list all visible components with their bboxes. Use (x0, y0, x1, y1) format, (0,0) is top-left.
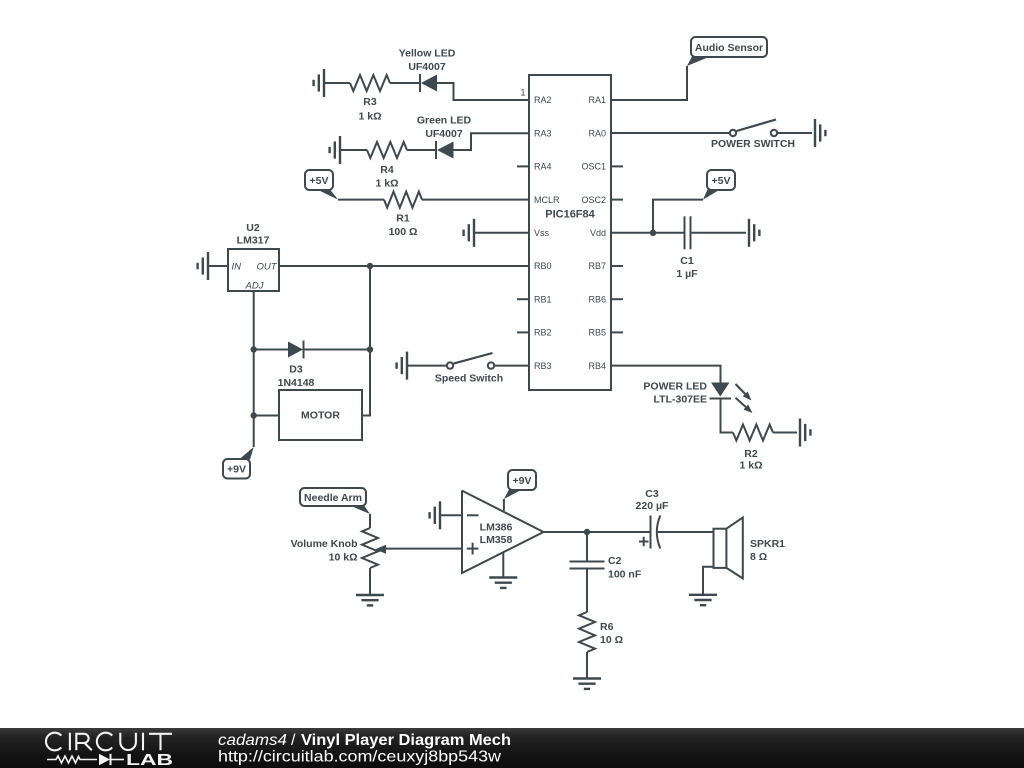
wire down to +9V flag (253, 416, 255, 448)
CircuitLab logo (46, 733, 173, 768)
ground (below speaker) (689, 595, 717, 605)
svg-text:Volume Knob: Volume Knob (291, 538, 358, 550)
wire motor left (254, 415, 279, 417)
label LM386 LM358 (480, 522, 513, 547)
switch SW1 POWER SWITCH (730, 120, 777, 137)
wire switch to RB3 (494, 365, 529, 367)
label Volume Knob 10k (291, 538, 358, 564)
wire Vdd to C1 (611, 232, 684, 234)
svg-text:LM317: LM317 (237, 235, 270, 247)
label R4 1 kOhm (375, 164, 398, 190)
footer url text (218, 748, 501, 765)
net flag +5V (Vdd) (703, 170, 735, 200)
wire junction up to +5V (653, 200, 703, 233)
svg-text:/: / (291, 732, 296, 749)
wire R3 to D1 (390, 82, 420, 84)
net flag Audio Sensor (687, 37, 767, 66)
svg-text:RB1: RB1 (534, 294, 552, 304)
node RB0 junction (367, 263, 373, 269)
wire down to motor right (362, 350, 370, 416)
wire +5V to R1 (338, 199, 384, 201)
ground (below op-amp) (489, 578, 517, 588)
label R3 1 kOhm (358, 96, 381, 123)
wire R1 to MCLR (422, 199, 529, 201)
ground (right of C1) (749, 219, 759, 247)
wire C2 to R6 (586, 569, 588, 613)
svg-text:SPKR1: SPKR1 (750, 538, 785, 550)
wire ground to minus input (440, 514, 462, 516)
svg-text:RA0: RA0 (588, 128, 606, 138)
label U2 LM317 (237, 222, 270, 247)
svg-text:RB0: RB0 (534, 261, 552, 271)
svg-text:+9V: +9V (513, 475, 532, 487)
wire ground to R3 (324, 82, 350, 84)
LED emission arrows (736, 384, 753, 413)
svg-text:1 kΩ: 1 kΩ (739, 460, 762, 472)
svg-text:POWER SWITCH: POWER SWITCH (711, 138, 795, 150)
wire R4 to D2 (407, 149, 436, 151)
svg-text:1 µF: 1 µF (676, 268, 698, 280)
svg-text:Green LED: Green LED (417, 115, 472, 127)
svg-text:RA2: RA2 (534, 95, 552, 105)
svg-text:R6: R6 (600, 621, 614, 633)
svg-text:C1: C1 (680, 255, 694, 267)
label Green LED UF4007 (417, 115, 472, 141)
label C3 220uF (636, 488, 669, 512)
svg-text:C2: C2 (608, 555, 622, 567)
wire D2 to RA3 (454, 133, 530, 150)
svg-text:OSC1: OSC1 (581, 162, 606, 172)
diode D2 green LED (436, 141, 454, 159)
svg-text:100 nF: 100 nF (608, 569, 642, 581)
op-amp power stub (503, 499, 505, 511)
wire RA0 to switch (611, 132, 730, 134)
ground (op-amp minus input) (430, 501, 440, 529)
svg-text:D3: D3 (289, 364, 303, 376)
ground (right of R2) (800, 419, 810, 447)
capacitor C2 (570, 562, 605, 569)
svg-text:1 kΩ: 1 kΩ (375, 178, 398, 190)
svg-text:UF4007: UF4007 (408, 61, 446, 73)
svg-text:RA1: RA1 (588, 95, 606, 105)
ground (left of R4) (330, 136, 340, 164)
svg-text:Vinyl Player Diagram Mech: Vinyl Player Diagram Mech (301, 732, 511, 749)
label Yellow LED UF4007 (399, 48, 456, 74)
svg-text:ADJ: ADJ (245, 281, 264, 292)
svg-text:R3: R3 (363, 96, 377, 108)
op-amp ground stub (502, 553, 504, 578)
svg-text:LTL-307EE: LTL-307EE (654, 394, 707, 406)
svg-text:OUT: OUT (256, 262, 277, 273)
label C2 100nF (608, 555, 642, 581)
wire D1 to RA2 (437, 83, 529, 100)
svg-text:R4: R4 (380, 164, 394, 176)
capacitor C1 (685, 216, 691, 249)
footer title text (218, 732, 511, 749)
svg-text:RB7: RB7 (588, 261, 606, 271)
svg-text:Yellow LED: Yellow LED (399, 48, 456, 60)
svg-text:RB3: RB3 (534, 361, 552, 371)
label POWER LED LTL-307EE (643, 381, 707, 406)
capacitor C3 polarized (639, 516, 660, 549)
svg-text:RB6: RB6 (588, 294, 606, 304)
svg-text:Speed Switch: Speed Switch (435, 373, 503, 385)
footer bar (0, 728, 1024, 768)
svg-text:LM358: LM358 (480, 534, 513, 546)
voltage regulator U2 LM317 box (228, 249, 279, 292)
net flag +9V (motor) (223, 447, 254, 479)
svg-text:IN: IN (232, 262, 242, 273)
wire D3 to junction (304, 349, 371, 351)
svg-text:Audio Sensor: Audio Sensor (695, 42, 763, 54)
svg-text:8 Ω: 8 Ω (750, 551, 767, 563)
wire ADJ branch down (253, 350, 255, 416)
svg-text:C3: C3 (645, 488, 659, 500)
speaker SPKR1 (714, 518, 743, 579)
resistor R3 (350, 75, 390, 91)
ground (left of R3) (314, 69, 324, 97)
resistor R2 (733, 425, 773, 441)
svg-text:OSC2: OSC2 (581, 195, 606, 205)
label SPKR1 8 Ohm (750, 538, 785, 563)
svg-text:MCLR: MCLR (534, 195, 560, 205)
wire U2 ADJ down (253, 291, 255, 350)
node Vdd junction (650, 230, 656, 236)
pot wiper arrow (375, 545, 462, 554)
label R2 1 kOhm (739, 448, 762, 472)
svg-text:Vdd: Vdd (590, 228, 606, 238)
ground (right of power switch) (815, 119, 825, 147)
ground (left of U2) (198, 252, 208, 280)
svg-text:R1: R1 (396, 213, 410, 225)
svg-text:RB4: RB4 (588, 361, 606, 371)
svg-text:RB5: RB5 (588, 328, 606, 338)
diode D3 (288, 341, 304, 359)
svg-text:Needle Arm: Needle Arm (304, 492, 362, 504)
wire R6 to ground (586, 652, 588, 678)
svg-text:POWER LED: POWER LED (643, 381, 707, 393)
label R1 100 Ohm (389, 213, 418, 239)
wire junction down right branch (369, 266, 371, 350)
wire opamp output (544, 531, 651, 533)
resistor R4 (367, 142, 407, 158)
potentiometer R5 Volume Knob (362, 528, 378, 568)
label C1 1uF (676, 255, 698, 280)
wire flag to pot (369, 514, 371, 528)
svg-text:100 Ω: 100 Ω (389, 226, 418, 238)
svg-text:LAB: LAB (126, 752, 173, 768)
svg-text:UF4007: UF4007 (425, 128, 463, 140)
wire LED to R2 (721, 399, 734, 433)
svg-text:R2: R2 (744, 448, 758, 460)
svg-text:220 µF: 220 µF (636, 500, 669, 512)
svg-text:10 kΩ: 10 kΩ (329, 552, 358, 564)
label Speed Switch (435, 373, 503, 385)
wire ground to switch (407, 365, 447, 367)
label D3 1N4148 (278, 364, 315, 390)
svg-text:Vss: Vss (534, 228, 550, 238)
op-amp U3 LM386 triangle (462, 491, 544, 573)
net flag +5V (MCLR) (305, 170, 338, 200)
svg-text:cadams4: cadams4 (218, 732, 287, 749)
wire to D3 (254, 349, 288, 351)
wire junction to C2 (586, 532, 588, 562)
diode D4 POWER LED (710, 383, 732, 399)
node motor left junction (251, 412, 257, 418)
svg-text:RB2: RB2 (534, 328, 552, 338)
ground (below pot) (356, 595, 384, 605)
svg-text:+5V: +5V (310, 175, 329, 187)
svg-text:RA3: RA3 (534, 128, 552, 138)
node output junction (584, 529, 590, 535)
wire RB4 right (611, 366, 721, 383)
ground (Vss) (464, 219, 474, 247)
label POWER SWITCH (711, 138, 795, 150)
ground (below R6) (573, 679, 601, 689)
svg-text:1 kΩ: 1 kΩ (358, 111, 381, 123)
diode D1 yellow LED (420, 74, 437, 92)
net flag Needle Arm (300, 488, 370, 514)
label R6 10 Ohm (600, 621, 623, 646)
wire pot to ground (369, 568, 371, 594)
svg-text:1N4148: 1N4148 (278, 377, 315, 389)
motor M1 box (279, 390, 362, 440)
wire U2 OUT to RB0 (279, 265, 529, 267)
wire ground to R4 (340, 149, 367, 151)
ground (left of speed switch) (397, 352, 407, 380)
svg-text:1: 1 (520, 88, 525, 98)
svg-text:http://circuitlab.com/ceuxyj8b: http://circuitlab.com/ceuxyj8bp543w (218, 748, 501, 765)
resistor R1 (384, 192, 422, 208)
wire C1 to ground (691, 232, 747, 234)
wire switch to ground (777, 132, 812, 134)
wire R2 to ground (773, 432, 797, 434)
net flag +9V (op-amp) (504, 470, 536, 499)
svg-text:RA4: RA4 (534, 162, 552, 172)
wire speaker to ground (703, 567, 714, 594)
svg-text:U2: U2 (246, 222, 260, 234)
node D3 right junction (367, 346, 373, 352)
svg-text:LM386: LM386 (480, 522, 513, 534)
node D3 left junction (251, 346, 257, 352)
wire C3 to speaker (657, 531, 714, 533)
svg-text:+5V: +5V (712, 175, 731, 187)
svg-text:PIC16F84: PIC16F84 (545, 209, 595, 221)
svg-text:10 Ω: 10 Ω (600, 634, 623, 646)
wire ground to Vss (474, 232, 529, 234)
resistor R6 (579, 612, 595, 652)
svg-text:MOTOR: MOTOR (301, 410, 340, 422)
wire ground to U2 IN (208, 265, 228, 267)
IC U1 PIC16F84 box with pin labels (517, 75, 623, 390)
svg-text:+9V: +9V (227, 464, 246, 476)
switch SW2 Speed Switch (447, 353, 494, 369)
wire Audio Sensor to RA1 (611, 66, 687, 100)
